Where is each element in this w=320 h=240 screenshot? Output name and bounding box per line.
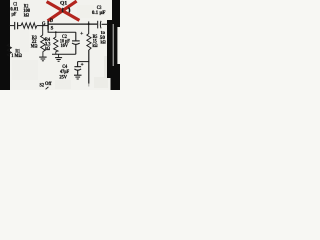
label C3 value [92, 5, 106, 16]
resistor R4 [54, 37, 58, 52]
wire drain [49, 23, 98, 25]
wire bottom rail [52, 53, 76, 55]
gray strip right mid [104, 56, 107, 78]
label R3 value [31, 35, 38, 50]
label C1 value [10, 2, 18, 18]
svg-text:MΩ: MΩ [31, 44, 38, 50]
wire R5 top lead [88, 24, 90, 34]
label C2 value [60, 34, 70, 49]
right bar thin white line [113, 24, 114, 66]
paper noise patches [12, 60, 38, 80]
wire supply fade [88, 84, 90, 87]
svg-text:D: D [50, 19, 53, 24]
wire R3 bottom lead [42, 52, 44, 57]
right bar white notch [117, 27, 120, 64]
wire supply vertical [88, 50, 90, 84]
wire C3 out [102, 23, 109, 25]
node drain junction [88, 23, 90, 25]
transistor Q1 gate bar [47, 21, 49, 30]
switch S2 fragment [46, 87, 49, 89]
ground C4 [74, 75, 82, 79]
svg-text:Off: Off [45, 81, 52, 87]
svg-text:1 MΩ: 1 MΩ [11, 54, 21, 59]
ground source rail [55, 54, 62, 61]
paper background [0, 0, 120, 90]
svg-text:16V: 16V [61, 44, 69, 49]
svg-text:S2: S2 [40, 83, 45, 88]
resistor R3 [41, 35, 46, 52]
node R4 tap [55, 31, 57, 33]
resistor R2 [21, 23, 37, 29]
resistor R5 [87, 34, 91, 50]
wire R2 to gate [37, 25, 48, 27]
gray smudge bottom right [94, 77, 108, 88]
label R1 value [11, 48, 21, 59]
svg-text:+: + [80, 31, 83, 37]
resistor R1 [7, 44, 11, 56]
svg-text:Q1: Q1 [60, 0, 68, 6]
label output load [100, 31, 106, 45]
svg-text:S: S [51, 26, 54, 31]
label C4 value [59, 64, 69, 80]
label R2 value [23, 3, 30, 18]
svg-text:kΩ: kΩ [45, 46, 50, 52]
wire R4 bottom lead [55, 52, 57, 55]
wire C4 tap [78, 61, 90, 63]
wire R4 top lead [55, 32, 57, 37]
wire C1 to R2 [18, 25, 21, 27]
left black bar [0, 0, 10, 90]
svg-text:kΩ: kΩ [24, 13, 29, 19]
capacitor C3 [98, 21, 101, 29]
svg-text:0.1 µF: 0.1 µF [92, 11, 106, 16]
label R4 value [45, 37, 51, 52]
svg-text:kΩ: kΩ [92, 43, 97, 49]
right black bar [107, 0, 120, 90]
capacitor C2 [72, 32, 80, 54]
wire input [10, 25, 15, 27]
svg-text:+: + [81, 63, 84, 68]
capacitor C4 [74, 62, 81, 75]
wire R3 lead [42, 26, 44, 36]
ground R3 [39, 57, 46, 61]
svg-text:kΩ: kΩ [101, 39, 106, 45]
svg-text:µF: µF [12, 11, 17, 17]
transistor Q1 body arcs [61, 8, 64, 12]
node gate junction [42, 25, 44, 27]
svg-text:25V: 25V [59, 75, 67, 80]
wire source lead [48, 30, 76, 33]
svg-text:47µF: 47µF [60, 70, 69, 75]
capacitor C1 [15, 22, 18, 30]
label R5 value [92, 34, 97, 49]
red X stroke 2 [48, 1, 77, 21]
red X stroke 1 [47, 2, 80, 21]
